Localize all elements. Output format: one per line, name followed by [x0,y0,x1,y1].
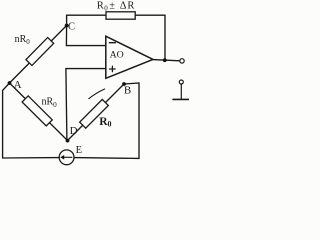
wire left rail up to A [3,83,10,158]
strain gauge mark over R0 [89,89,105,99]
svg-text:±: ± [109,0,115,11]
op-amp inverting pin - sign [109,42,115,44]
wire bottom rail left of source E [3,157,60,159]
ground terminal circle [179,80,183,84]
ground bar [173,98,189,100]
wire D-B bridge arm [68,84,125,141]
resistor R0±ΔR (feedback) [106,12,135,19]
resistor nR0 (arm A-C) [26,38,54,66]
svg-text:D: D [70,125,78,137]
wire bottom rail right of source E [74,157,139,160]
node D junction dot [66,139,70,143]
wire D up to non-inverting input [66,69,106,141]
wire A-C bridge arm [10,26,67,84]
op-amp U1 AO [106,36,153,78]
wire A-D bridge arm [10,83,68,141]
source E circle with arrow [59,150,74,165]
resistor R0 strain gauge (arm D-B) [80,99,109,128]
node output junction dot [163,58,167,62]
svg-text:AO: AO [110,50,124,61]
output terminal circle [180,59,184,63]
svg-text:R: R [97,1,104,12]
node A junction dot [8,81,12,85]
node C junction dot [65,24,69,28]
wire C up to top feedback rail [67,15,106,25]
wire B to right rail [124,83,139,158]
svg-text:B: B [124,84,131,96]
ground lead wire [180,84,182,99]
resistor nR0 (arm A-D) [22,96,52,126]
svg-text:A: A [14,79,22,91]
svg-text:E: E [76,145,82,156]
svg-text:nR0: nR0 [15,34,31,46]
svg-text:R0: R0 [99,116,111,129]
op-amp non-inverting pin + sign [110,66,116,72]
svg-text:ΔR: ΔR [120,1,135,12]
wire C down to inverting input [66,26,105,46]
wire feedback rail right and down to output [135,15,165,60]
node B junction dot [122,82,126,86]
svg-text:0: 0 [104,4,108,12]
wire op-amp output [153,60,180,61]
svg-text:nR0: nR0 [42,97,58,109]
svg-text:C: C [68,21,75,32]
